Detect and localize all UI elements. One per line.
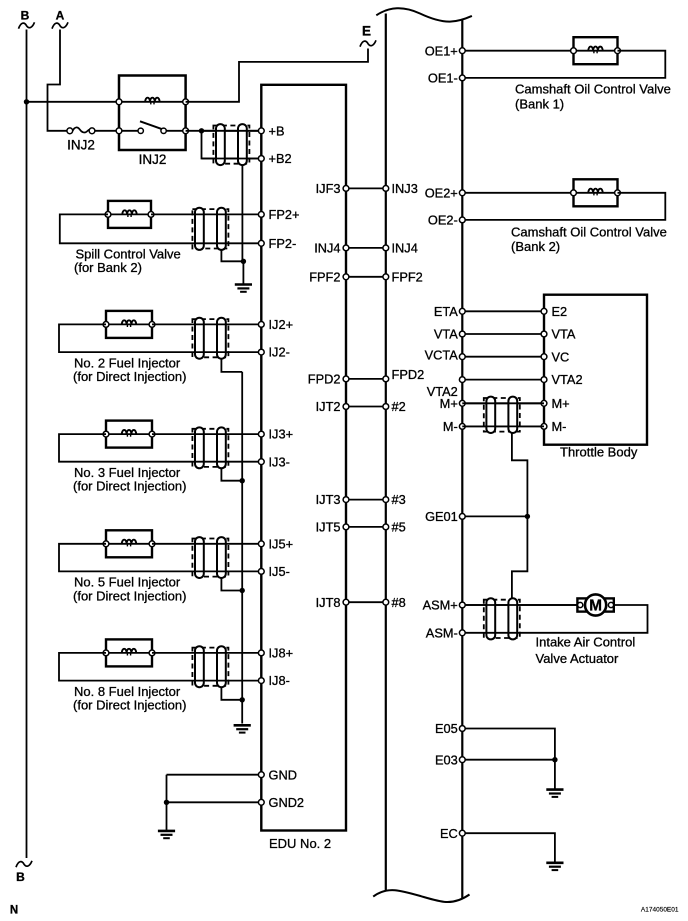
svg-text:(for Direct Injection): (for Direct Injection) — [73, 588, 186, 603]
svg-text:OE1-: OE1- — [428, 71, 458, 86]
svg-text:B: B — [16, 870, 25, 884]
svg-text:IJ8+: IJ8+ — [269, 646, 294, 661]
svg-text:+B2: +B2 — [269, 151, 292, 166]
svg-text:ASM+: ASM+ — [423, 598, 458, 613]
svg-text:ASM-: ASM- — [426, 625, 458, 640]
svg-text:IJ8-: IJ8- — [269, 673, 290, 688]
svg-text:(for Direct Injection): (for Direct Injection) — [73, 698, 186, 713]
svg-text:IJ2-: IJ2- — [269, 345, 290, 360]
svg-text:IJT5: IJT5 — [316, 520, 341, 535]
svg-text:Valve Actuator: Valve Actuator — [536, 651, 620, 666]
svg-text:N: N — [10, 905, 18, 917]
svg-text:VTA: VTA — [434, 327, 458, 342]
svg-text:Camshaft Oil Control Valve: Camshaft Oil Control Valve — [511, 225, 667, 240]
svg-text:EDU No. 2: EDU No. 2 — [269, 836, 331, 851]
svg-text:IJ2+: IJ2+ — [269, 317, 294, 332]
svg-text:IJT3: IJT3 — [316, 492, 341, 507]
svg-text:IJT8: IJT8 — [316, 595, 341, 610]
svg-text:(for Direct Injection): (for Direct Injection) — [73, 479, 186, 494]
svg-text:#5: #5 — [392, 520, 406, 535]
svg-text:VCTA: VCTA — [425, 348, 459, 363]
svg-text:#3: #3 — [392, 492, 406, 507]
svg-text:OE2-: OE2- — [428, 213, 458, 228]
svg-text:GND2: GND2 — [269, 795, 305, 810]
svg-text:IJF3: IJF3 — [316, 181, 341, 196]
svg-text:M-: M- — [443, 419, 458, 434]
svg-text:M+: M+ — [440, 396, 458, 411]
svg-text:FPF2: FPF2 — [392, 269, 423, 284]
svg-text:#8: #8 — [392, 595, 406, 610]
svg-text:EC: EC — [440, 826, 458, 841]
svg-text:VC: VC — [552, 349, 570, 364]
svg-text:ETA: ETA — [434, 304, 458, 319]
svg-text:INJ3: INJ3 — [392, 181, 418, 196]
svg-text:+B: +B — [269, 123, 285, 138]
svg-text:M: M — [589, 598, 602, 615]
svg-text:IJ5+: IJ5+ — [269, 536, 294, 551]
svg-text:E05: E05 — [435, 721, 458, 736]
svg-text:(for Bank 2): (for Bank 2) — [74, 260, 142, 275]
svg-text:M-: M- — [552, 419, 567, 434]
svg-text:E: E — [362, 24, 371, 39]
svg-text:FP2+: FP2+ — [269, 207, 300, 222]
svg-text:Throttle Body: Throttle Body — [560, 445, 638, 460]
svg-text:INJ4: INJ4 — [392, 241, 418, 256]
svg-text:(for Direct Injection): (for Direct Injection) — [73, 369, 186, 384]
svg-text:M+: M+ — [552, 396, 570, 411]
svg-text:A174050E01: A174050E01 — [641, 907, 679, 914]
svg-text:B: B — [21, 9, 30, 23]
svg-text:E2: E2 — [552, 304, 568, 319]
svg-text:#2: #2 — [392, 399, 406, 414]
svg-text:Intake Air Control: Intake Air Control — [536, 635, 636, 650]
svg-text:INJ2: INJ2 — [139, 152, 167, 167]
svg-text:INJ4: INJ4 — [314, 241, 340, 256]
svg-text:Camshaft Oil Control Valve: Camshaft Oil Control Valve — [515, 82, 671, 97]
svg-text:OE2+: OE2+ — [425, 185, 458, 200]
svg-text:FPD2: FPD2 — [392, 367, 425, 382]
svg-text:FPD2: FPD2 — [308, 372, 341, 387]
svg-text:VTA2: VTA2 — [552, 372, 583, 387]
svg-text:INJ2: INJ2 — [67, 138, 95, 153]
svg-text:IJ3-: IJ3- — [269, 454, 290, 469]
svg-text:GND: GND — [269, 767, 297, 782]
svg-text:VTA: VTA — [552, 327, 576, 342]
svg-text:OE1+: OE1+ — [425, 43, 458, 58]
svg-text:IJT2: IJT2 — [316, 399, 341, 414]
svg-text:(Bank 2): (Bank 2) — [511, 239, 560, 254]
svg-text:IJ3+: IJ3+ — [269, 427, 294, 442]
svg-text:FP2-: FP2- — [269, 236, 297, 251]
svg-text:E03: E03 — [435, 752, 458, 767]
svg-text:IJ5-: IJ5- — [269, 564, 290, 579]
svg-text:GE01: GE01 — [425, 509, 458, 524]
svg-text:FPF2: FPF2 — [309, 269, 340, 284]
svg-text:(Bank 1): (Bank 1) — [515, 96, 564, 111]
svg-text:A: A — [56, 9, 65, 23]
